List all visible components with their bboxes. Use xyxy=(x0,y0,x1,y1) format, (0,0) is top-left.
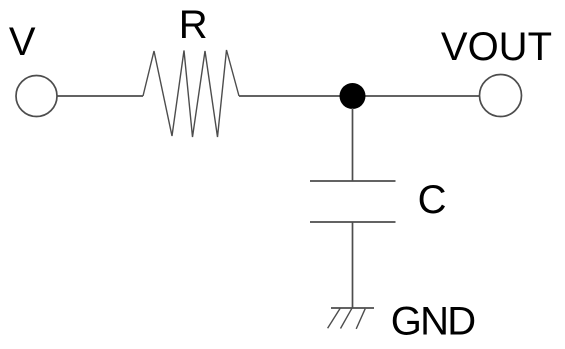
ground hatch 3 xyxy=(356,309,365,329)
ground hatch 1 xyxy=(328,308,341,328)
wire resistor to node xyxy=(239,95,353,97)
svg-text:V: V xyxy=(9,20,36,64)
terminal circle V xyxy=(16,76,57,117)
wire node to capacitor xyxy=(352,108,354,181)
ground hatch 2 xyxy=(341,308,352,328)
svg-text:GND: GND xyxy=(391,299,475,343)
svg-text:R: R xyxy=(179,3,208,47)
capacitor C top plate xyxy=(310,180,396,182)
wire node to VOUT terminal xyxy=(353,95,481,97)
resistor R xyxy=(143,50,239,137)
terminal circle VOUT xyxy=(480,75,522,117)
capacitor C bottom plate xyxy=(310,221,396,223)
junction node xyxy=(340,83,366,109)
svg-text:C: C xyxy=(418,178,447,222)
svg-text:VOUT: VOUT xyxy=(441,25,552,69)
wire V terminal to resistor xyxy=(57,95,143,97)
wire capacitor to ground xyxy=(352,222,354,308)
ground bar xyxy=(331,307,374,309)
